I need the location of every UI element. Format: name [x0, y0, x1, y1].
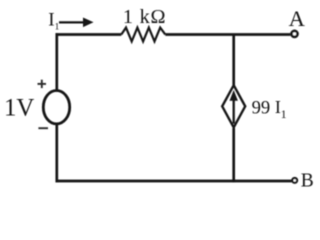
- wire left vertical upper (top wire to source +): [55, 33, 58, 90]
- svg-text:1 kΩ: 1 kΩ: [123, 6, 166, 28]
- plus sign: [38, 80, 47, 88]
- wire middle vertical upper (top wire to dep source): [232, 35, 235, 86]
- wire left vertical lower (source - to bottom wire): [55, 125, 58, 183]
- svg-text:A: A: [289, 6, 306, 31]
- svg-text:99: 99: [252, 97, 271, 118]
- minus sign: [38, 127, 48, 129]
- resistor R 1kΩ zigzag: [121, 28, 165, 42]
- svg-text:1: 1: [55, 23, 60, 33]
- wire top-left horizontal (corner to resistor): [56, 33, 122, 36]
- dep source arrowhead: [230, 90, 238, 101]
- svg-text:1: 1: [281, 107, 287, 121]
- wire middle vertical lower (dep source to bottom wire): [232, 128, 235, 182]
- terminal A open circle: [292, 31, 298, 37]
- current direction arrow I1: [59, 21, 85, 23]
- svg-text:I: I: [48, 10, 54, 31]
- voltage source V1 1V: [43, 91, 69, 124]
- svg-text:1V: 1V: [4, 94, 34, 121]
- wire top horizontal (resistor to terminal A): [165, 33, 290, 36]
- wire bottom horizontal: [56, 180, 292, 183]
- dep source arrow shaft: [233, 100, 235, 124]
- terminal B open circle: [292, 178, 297, 183]
- dependent current source diamond: [222, 85, 245, 127]
- svg-text:B: B: [301, 170, 314, 191]
